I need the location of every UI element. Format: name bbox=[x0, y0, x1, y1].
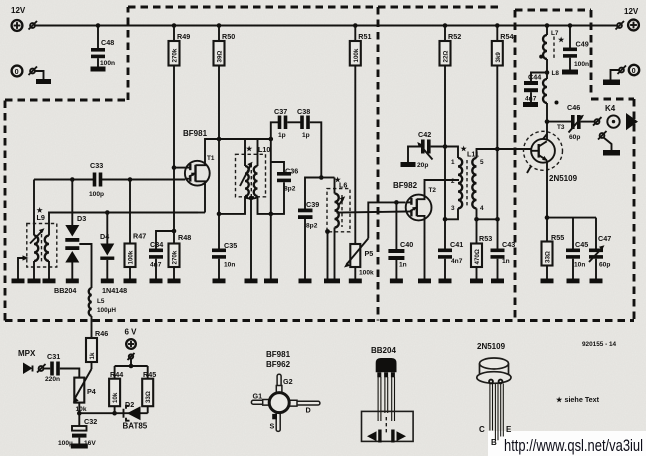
svg-text:0: 0 bbox=[632, 66, 636, 75]
ground (L10) bbox=[245, 279, 258, 284]
svg-text:100n: 100n bbox=[100, 60, 115, 67]
svg-text:1k: 1k bbox=[89, 352, 96, 359]
node gate2 / C40 bbox=[394, 200, 399, 205]
svg-text:D: D bbox=[306, 406, 311, 415]
body circle bbox=[269, 393, 289, 413]
svg-text:8p2: 8p2 bbox=[284, 186, 296, 193]
wire base line to T3 bbox=[497, 148, 531, 150]
svg-text:BF981: BF981 bbox=[266, 350, 291, 359]
svg-text:22Ω: 22Ω bbox=[443, 51, 450, 63]
svg-text:C46: C46 bbox=[567, 103, 580, 112]
ground (K4 shell) bbox=[603, 150, 620, 156]
svg-text:BB204: BB204 bbox=[54, 286, 76, 295]
svg-text:C47: C47 bbox=[598, 234, 611, 243]
wire tank node to C39 bbox=[305, 178, 321, 209]
svg-text:T3: T3 bbox=[557, 124, 565, 131]
wire L5 to R46 bbox=[91, 316, 93, 338]
svg-text:L5: L5 bbox=[97, 298, 105, 305]
svg-text:G1: G1 bbox=[253, 392, 263, 401]
wire L10 left bottom to C35 line bbox=[219, 197, 245, 214]
ground (R47) bbox=[124, 279, 137, 284]
node rail/R49 bbox=[172, 23, 177, 28]
ground (C35) bbox=[213, 279, 226, 284]
node R54-line / base wire bbox=[495, 147, 500, 152]
coil L5 bbox=[89, 288, 92, 316]
svg-text:C44: C44 bbox=[528, 73, 541, 82]
svg-text:R46: R46 bbox=[95, 329, 108, 338]
coupling arrow into L9 from ground bbox=[18, 258, 24, 279]
wire P4 node to D2 node bbox=[79, 412, 114, 414]
wire gate1 line with C33 bbox=[34, 179, 94, 181]
svg-text:BF981: BF981 bbox=[183, 129, 208, 138]
svg-text:E: E bbox=[506, 425, 512, 434]
svg-text:C33: C33 bbox=[90, 161, 103, 170]
svg-text:0: 0 bbox=[15, 67, 19, 76]
wire 6V to R44/R45 bbox=[130, 359, 132, 366]
wire L8 to collector node bbox=[546, 103, 548, 122]
wire collector to C46 bbox=[547, 121, 573, 123]
svg-text:K4: K4 bbox=[605, 104, 616, 113]
svg-text:4n7: 4n7 bbox=[451, 258, 463, 265]
svg-text:R51: R51 bbox=[358, 32, 371, 41]
svg-text:C41: C41 bbox=[450, 240, 463, 249]
ground (L9 arrow) bbox=[12, 279, 25, 284]
ground (0V right) bbox=[603, 80, 620, 86]
svg-text:1N4148: 1N4148 bbox=[102, 286, 127, 295]
wire T1 gate2 bbox=[174, 167, 185, 169]
node rail/R51 bbox=[353, 23, 358, 28]
L10 tuning arrow bbox=[240, 165, 251, 187]
svg-text:R45: R45 bbox=[143, 370, 156, 379]
svg-text:10n: 10n bbox=[224, 262, 235, 269]
svg-text:C42: C42 bbox=[418, 130, 431, 139]
svg-text:60p: 60p bbox=[599, 262, 610, 269]
wire up to C37 bbox=[271, 122, 280, 139]
svg-text:3k9: 3k9 bbox=[495, 52, 502, 63]
svg-text:★: ★ bbox=[557, 35, 565, 44]
ground (C40) bbox=[390, 279, 403, 284]
ground (0V left) bbox=[36, 79, 51, 84]
node source-line / D4 bbox=[105, 210, 110, 215]
svg-text:100µ: 100µ bbox=[58, 440, 73, 447]
L9 tuning arrow bbox=[30, 231, 43, 244]
wire 0V to ground bbox=[35, 71, 44, 79]
svg-text:1: 1 bbox=[451, 159, 455, 166]
lead G2 bbox=[277, 374, 281, 393]
svg-text:P5: P5 bbox=[365, 249, 374, 258]
svg-text:470Ω: 470Ω bbox=[474, 249, 481, 264]
varicap symbols inside bbox=[367, 431, 377, 441]
ground (C41) bbox=[439, 279, 452, 284]
output stage dashed box top and right bbox=[515, 9, 591, 12]
wire D3 centre tap to L5 bbox=[79, 244, 91, 288]
wire tank node to L6 bbox=[321, 177, 334, 179]
node gate1-line / D3 bbox=[70, 177, 75, 182]
wire R50 to C35 bbox=[218, 66, 220, 249]
ground (C48) bbox=[91, 67, 106, 72]
node L7/L8/C44 bbox=[545, 70, 550, 75]
svg-text:6 V: 6 V bbox=[125, 328, 138, 337]
L6 tuning arrow bbox=[339, 199, 344, 206]
svg-text:100k: 100k bbox=[359, 270, 374, 277]
svg-text:R50: R50 bbox=[222, 32, 235, 41]
wire L9 primary top bbox=[33, 180, 35, 229]
wire L10 right bottom to C36 line bbox=[258, 197, 271, 214]
connector symbol K4 bbox=[595, 119, 600, 124]
ground (C39) bbox=[299, 279, 312, 284]
wire R46 to P4 wiper bbox=[91, 362, 93, 369]
ground (C34) bbox=[150, 279, 163, 284]
svg-text:B: B bbox=[491, 438, 497, 447]
svg-text:60p: 60p bbox=[569, 134, 580, 141]
svg-text:C: C bbox=[479, 425, 485, 434]
node rail/C48 bbox=[96, 23, 101, 28]
L6 bottom to ground bbox=[334, 228, 336, 279]
wire T1 drain up and right bbox=[205, 139, 270, 162]
svg-text:12V: 12V bbox=[11, 6, 26, 15]
wire L6 tap to T2 gate1 bbox=[337, 212, 406, 213]
diode equivalent box bbox=[362, 411, 414, 441]
ground (C47) bbox=[590, 279, 603, 284]
SECTION:T3STAGE bbox=[497, 26, 638, 284]
svg-text:MPX: MPX bbox=[18, 349, 36, 358]
stage divider dashed line (output stage left edge) bbox=[514, 10, 517, 321]
node R49-line / C34 branch bbox=[172, 229, 177, 234]
K4 shell connector to ground bbox=[600, 133, 605, 138]
wire T2 source to ground bbox=[424, 219, 426, 279]
wire T3 collector up bbox=[546, 122, 548, 141]
ground (R55) bbox=[541, 279, 554, 284]
svg-text:100p: 100p bbox=[89, 191, 104, 198]
svg-text:10n: 10n bbox=[574, 262, 585, 269]
svg-text:12V: 12V bbox=[624, 7, 639, 16]
wire P5 wiper to T2 gate2 bbox=[368, 202, 405, 238]
wire C38 to tank node bbox=[310, 122, 322, 177]
svg-text:R49: R49 bbox=[177, 32, 190, 41]
svg-text:220n: 220n bbox=[45, 376, 60, 383]
wire T2 drain to L11 pin2 bbox=[425, 180, 460, 196]
svg-text:100µH: 100µH bbox=[97, 307, 116, 314]
svg-text:1n: 1n bbox=[502, 258, 510, 265]
ground (R53) bbox=[470, 279, 483, 284]
svg-text:C49: C49 bbox=[576, 40, 589, 49]
SECTION:RAIL bbox=[35, 23, 617, 65]
svg-text:2: 2 bbox=[451, 178, 455, 185]
connector symbol MPX bbox=[39, 366, 44, 371]
lead G1 bbox=[251, 400, 270, 404]
wire T3 emitter down bbox=[546, 161, 548, 242]
svg-text:L8: L8 bbox=[552, 70, 560, 77]
svg-text:R44: R44 bbox=[110, 370, 123, 379]
svg-text:C43: C43 bbox=[502, 240, 515, 249]
svg-text:★: ★ bbox=[245, 144, 253, 153]
plug arrow bbox=[626, 113, 638, 130]
svg-text:20p: 20p bbox=[417, 162, 428, 169]
svg-text:★ siehe Text: ★ siehe Text bbox=[555, 395, 600, 404]
svg-text:L9: L9 bbox=[37, 213, 45, 222]
wire C42 to L11 pin1 bbox=[431, 147, 458, 159]
svg-text:8p2: 8p2 bbox=[306, 223, 318, 230]
svg-text:100k: 100k bbox=[128, 250, 135, 264]
svg-text:100k: 100k bbox=[353, 48, 360, 62]
svg-text:C39: C39 bbox=[306, 200, 319, 209]
svg-text:G2: G2 bbox=[283, 377, 293, 386]
svg-text:33Ω: 33Ω bbox=[545, 251, 552, 263]
screened enclosure dashed outline (main box, left part) bbox=[128, 6, 503, 9]
wire C42 left to ground bbox=[408, 147, 421, 163]
SECTION:PACKAGES bbox=[251, 341, 643, 455]
svg-text:http://www.qsl.net/va3iul: http://www.qsl.net/va3iul bbox=[504, 437, 643, 455]
svg-text:270k: 270k bbox=[172, 48, 179, 62]
svg-text:S: S bbox=[270, 422, 275, 431]
ground (P5) bbox=[349, 279, 362, 284]
SECTION:T2STAGE bbox=[388, 66, 515, 284]
svg-text:L10: L10 bbox=[258, 145, 270, 154]
ground (L9 secondary) bbox=[43, 279, 56, 284]
ground (C44) bbox=[523, 102, 538, 107]
connector symbol 12V left bbox=[30, 23, 35, 28]
svg-text:1n: 1n bbox=[399, 262, 407, 269]
wire to L11 pin5 bbox=[477, 149, 498, 158]
wire C37 branch down bbox=[270, 139, 272, 214]
wire P4 bottom node bbox=[78, 403, 80, 414]
node rail/R54 bbox=[495, 23, 500, 28]
svg-text:C32: C32 bbox=[84, 417, 97, 426]
svg-text:C40: C40 bbox=[400, 240, 413, 249]
svg-text:2N5109: 2N5109 bbox=[477, 342, 506, 351]
svg-text:C45: C45 bbox=[575, 240, 588, 249]
connector symbol 12V right bbox=[617, 23, 622, 28]
lead S with tab bbox=[276, 412, 280, 431]
stage divider dashed line bbox=[377, 7, 380, 321]
svg-text:R48: R48 bbox=[178, 233, 191, 242]
svg-text:10k: 10k bbox=[112, 392, 119, 403]
legs bbox=[378, 377, 394, 421]
lead D bbox=[289, 401, 320, 405]
ground (C36/secondary) bbox=[270, 214, 272, 279]
svg-text:BF962: BF962 bbox=[266, 360, 291, 369]
node rail/R50 bbox=[217, 23, 222, 28]
svg-text:4: 4 bbox=[480, 205, 484, 212]
L9 winding bottoms to ground bbox=[33, 261, 35, 279]
svg-text:D3: D3 bbox=[77, 214, 86, 223]
svg-text:920155 - 14: 920155 - 14 bbox=[582, 341, 617, 348]
svg-text:39Ω: 39Ω bbox=[217, 51, 224, 63]
ground (D4) bbox=[101, 279, 114, 284]
wire C31 to P4 bbox=[60, 369, 80, 378]
ground (R48) bbox=[168, 279, 181, 284]
svg-text:BF982: BF982 bbox=[393, 181, 418, 190]
node rail/L7 bbox=[545, 23, 550, 28]
node rail/R52 bbox=[443, 23, 448, 28]
0V terminal (left) bbox=[12, 66, 23, 77]
wire L11 pin4 to R53/C43 bbox=[477, 208, 498, 219]
wire R54 down to pin4 node bbox=[496, 66, 498, 220]
node drain-line / R50 bbox=[217, 137, 222, 142]
node gate1-line / R47 bbox=[128, 177, 133, 182]
ground (T2 source) bbox=[418, 279, 431, 284]
0V terminal (right) bbox=[629, 65, 639, 75]
SECTION:BOTTOMLEFT bbox=[18, 328, 156, 449]
node C35-line / L10 bottom link bbox=[217, 212, 222, 217]
wire 0V right to ground bbox=[611, 70, 620, 80]
node collector bbox=[545, 119, 550, 124]
wire emitter node to C45/C47 bbox=[547, 217, 596, 219]
wire R52 down to C41 node bbox=[444, 66, 446, 220]
coil L8 bbox=[546, 73, 548, 80]
ground (C43) bbox=[491, 279, 504, 284]
L10 winding bottom leads to centre node bbox=[245, 196, 258, 199]
ground (C45) bbox=[567, 279, 580, 284]
connector symbol 0V right bbox=[619, 68, 624, 73]
node emitter bbox=[545, 215, 550, 220]
svg-text:C38: C38 bbox=[297, 107, 310, 116]
SECTION:FRAME bbox=[5, 7, 634, 321]
node C42-line / R52 bbox=[443, 144, 448, 149]
node drain-line / C37 branch bbox=[269, 137, 274, 142]
ground (C49) bbox=[562, 70, 578, 75]
L6 screen dot and ground bbox=[325, 229, 330, 234]
svg-text:5: 5 bbox=[480, 159, 484, 166]
svg-text:BAT85: BAT85 bbox=[123, 422, 148, 431]
svg-text:C31: C31 bbox=[47, 352, 60, 361]
svg-text:100n: 100n bbox=[574, 61, 589, 68]
svg-text:T1: T1 bbox=[207, 155, 215, 162]
svg-text:2N5109: 2N5109 bbox=[549, 174, 578, 183]
svg-text:270k: 270k bbox=[172, 250, 179, 264]
wire R51 to P5 bbox=[354, 66, 356, 245]
wire C37 to C38 bbox=[287, 121, 302, 123]
svg-text:R53: R53 bbox=[479, 234, 492, 243]
svg-text:P4: P4 bbox=[87, 387, 96, 396]
SECTION:INPUT bbox=[12, 66, 199, 339]
wire T1 source down bbox=[204, 184, 206, 213]
ground (L6) bbox=[324, 279, 340, 284]
svg-text:C37: C37 bbox=[274, 107, 287, 116]
SECTION:TOPLEFT bbox=[11, 6, 639, 85]
+12V supply rail wire bbox=[35, 25, 617, 27]
svg-text:33Ω: 33Ω bbox=[145, 391, 152, 403]
svg-text:1p: 1p bbox=[278, 132, 286, 139]
wire C46 to K4 bbox=[581, 121, 595, 123]
ground (C42) bbox=[401, 162, 416, 167]
wire L9 secondary top to T1 source line bbox=[49, 213, 198, 217]
ground (L9 primary) bbox=[28, 279, 41, 284]
svg-text:1p: 1p bbox=[302, 132, 310, 139]
SECTION:T1STAGE bbox=[174, 66, 406, 284]
svg-text:R52: R52 bbox=[448, 32, 461, 41]
svg-text:R54: R54 bbox=[500, 32, 513, 41]
connector symbol 6V bbox=[129, 354, 133, 358]
svg-text:T2: T2 bbox=[429, 187, 437, 194]
shield stub bbox=[527, 166, 531, 173]
node gate2 / bias line bbox=[172, 165, 177, 170]
svg-text:BB204: BB204 bbox=[371, 346, 396, 355]
connector symbol 0V left bbox=[30, 69, 35, 74]
ground (D3) bbox=[66, 279, 79, 284]
wire R49 to R48 (gate2 bias) bbox=[173, 66, 175, 244]
svg-text:R47: R47 bbox=[133, 232, 146, 241]
svg-text:C48: C48 bbox=[101, 38, 114, 47]
svg-text:3: 3 bbox=[451, 205, 455, 212]
ground (C32) bbox=[71, 444, 88, 449]
node rail/C49 bbox=[568, 23, 573, 28]
wire L11 pin3 to node bbox=[445, 208, 458, 219]
